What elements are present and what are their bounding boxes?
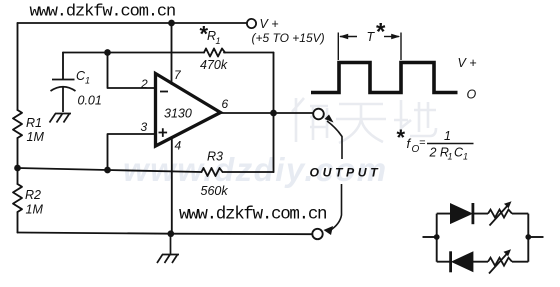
svg-text:www.dzkfw.com.cn: www.dzkfw.com.cn: [179, 205, 326, 225]
svg-text:2 R: 2 R: [429, 146, 449, 160]
svg-text:1: 1: [444, 129, 451, 143]
svg-text:*: *: [376, 19, 386, 46]
wire pin4 vertical: [171, 137, 173, 234]
wire feedback vertical: [273, 53, 275, 173]
svg-text:3130: 3130: [164, 107, 192, 121]
node pin4/bottom rail: [167, 230, 174, 237]
dimension tick left: [337, 33, 339, 61]
capacitor C1: [51, 80, 76, 113]
terminal output lower: [312, 229, 322, 239]
svg-text:O: O: [467, 88, 477, 102]
svg-text:1: 1: [463, 152, 468, 162]
svg-text:1: 1: [448, 152, 453, 162]
svg-text:560k: 560k: [201, 184, 229, 198]
svg-text:R3: R3: [207, 150, 223, 164]
svg-text:(+5 TO +15V): (+5 TO +15V): [252, 31, 325, 45]
op-amp minus sign: [160, 91, 168, 93]
varistor bottom (zigzag with arrow): [488, 258, 512, 266]
svg-text:7: 7: [174, 68, 182, 82]
wire pin2 branch: [108, 53, 155, 89]
resistor R2 1M zigzag: [13, 184, 22, 212]
terminal V+: [247, 19, 256, 28]
node pin3: [104, 167, 111, 174]
waveform square wave: [311, 63, 458, 93]
svg-text:4: 4: [175, 139, 182, 153]
wire top rail: [18, 22, 247, 24]
svg-text:V +: V +: [458, 56, 477, 70]
wire left vertical (with R1,R2 gaps filled by zigzags): [17, 23, 19, 233]
diode D1 (top, pointing right): [451, 204, 472, 224]
svg-text:0.01: 0.01: [78, 94, 102, 108]
svg-text:www.dzkfw.com.cn: www.dzkfw.com.cn: [30, 3, 176, 22]
wire C1 / Rf top line: [63, 52, 274, 54]
svg-text:OUTPUT: OUTPUT: [310, 166, 382, 180]
wire left stub: [423, 236, 437, 238]
resistor Rf 470k zigzag: [204, 49, 225, 57]
wire C1 stub: [62, 53, 64, 80]
diode D2 (bottom, pointing left): [452, 252, 473, 272]
op-amp U1 3130 triangle: [156, 74, 221, 147]
wire mid rail (divider / R3 line): [18, 168, 274, 172]
svg-text:1M: 1M: [27, 130, 45, 144]
node right (diode net): [525, 234, 531, 240]
terminal output upper: [313, 109, 324, 120]
dimension tick right: [400, 33, 402, 61]
svg-text:V +: V +: [260, 17, 279, 31]
node pin7/top rail: [168, 20, 175, 27]
resistor R1 1M zigzag: [13, 110, 22, 138]
wire right stub: [528, 236, 543, 238]
svg-text:2: 2: [140, 77, 148, 91]
wire pin7 vertical: [171, 23, 173, 84]
wire network rectangle: [437, 214, 529, 262]
node C1/Rf: [104, 49, 111, 56]
svg-text:1: 1: [216, 36, 221, 46]
svg-text:R2: R2: [25, 188, 41, 202]
svg-text:1: 1: [85, 76, 90, 86]
output indicator line lower: [330, 184, 342, 231]
ground (C1): [50, 114, 72, 123]
wire pin3 branch: [108, 134, 155, 170]
svg-text:R1: R1: [26, 116, 42, 130]
node divider left: [14, 165, 21, 172]
arrow to upper terminal: [325, 115, 334, 123]
wire pin6 output: [220, 112, 312, 114]
ground (pin4 / bottom rail): [157, 234, 179, 263]
svg-text:3: 3: [141, 120, 148, 134]
svg-text:=: =: [419, 137, 426, 149]
svg-text:*: *: [397, 125, 406, 150]
wire bottom rail: [18, 233, 313, 235]
node output: [270, 110, 277, 117]
dimension arrow right: [384, 36, 399, 38]
svg-text:T: T: [367, 30, 376, 44]
arrow to lower terminal: [324, 226, 334, 235]
diode network wires: [423, 214, 544, 262]
svg-text:1M: 1M: [26, 203, 44, 217]
resistor R3 560k zigzag: [202, 168, 223, 176]
svg-text:470k: 470k: [200, 58, 228, 72]
output indicator line upper: [327, 121, 342, 159]
dimension arrow left: [340, 36, 357, 38]
svg-text:6: 6: [222, 97, 229, 111]
node left (diode net): [434, 234, 440, 240]
varistor top (zigzag with arrow): [488, 210, 512, 218]
ghost watermark band 1 (faint CJK): [292, 98, 436, 143]
op-amp plus sign: [159, 128, 168, 137]
